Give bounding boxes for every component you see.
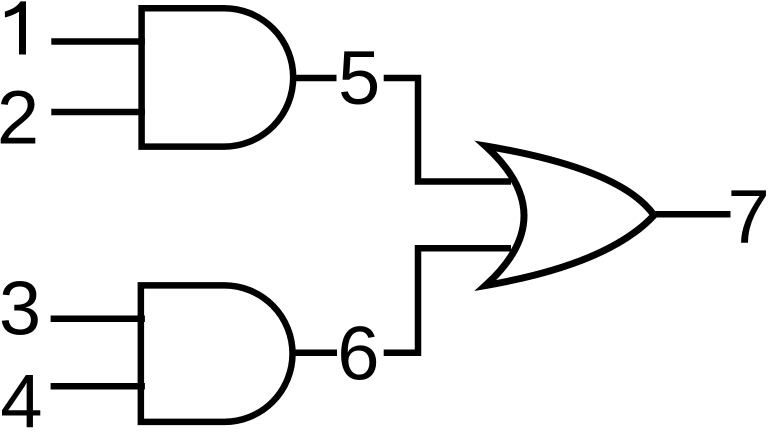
OR gate U3 bbox=[486, 146, 655, 286]
wire input 2 bbox=[51, 109, 145, 116]
label input 1 bbox=[5, 1, 26, 54]
wire input 3 bbox=[51, 315, 145, 322]
wire net 5 stub from U1 output bbox=[292, 75, 337, 82]
svg-text:7: 7 bbox=[728, 175, 768, 260]
svg-text:5: 5 bbox=[338, 36, 380, 121]
AND gate U1 (top) bbox=[142, 8, 294, 146]
svg-text:2: 2 bbox=[0, 75, 39, 160]
wire input 1 bbox=[51, 38, 145, 45]
wire net 5 elbow into OR top input bbox=[384, 78, 511, 182]
wire net 6 stub from U2 output bbox=[292, 349, 338, 356]
svg-text:4: 4 bbox=[0, 360, 42, 432]
wire net 6 elbow into OR bottom input bbox=[384, 248, 511, 352]
wire net 7 output bbox=[656, 211, 731, 218]
svg-text:6: 6 bbox=[337, 311, 379, 396]
svg-text:3: 3 bbox=[0, 266, 41, 351]
AND gate U2 (bottom) bbox=[141, 285, 293, 421]
wire input 4 bbox=[51, 383, 145, 390]
